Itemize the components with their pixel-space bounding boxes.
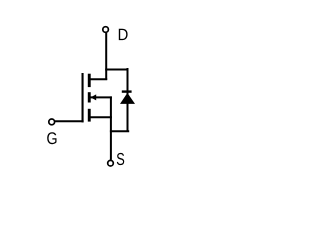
wire diode bottom branch	[110, 130, 129, 132]
arrowhead bulk arrow	[91, 94, 97, 100]
diode D1 cathode bar	[122, 90, 132, 92]
wire middle tap (bulk)	[91, 96, 112, 98]
gate terminal circle G	[49, 119, 55, 125]
wire source vertical	[110, 96, 112, 159]
MOSFET M1 channel segment bottom	[88, 109, 91, 122]
wire drain to diode branch	[105, 69, 128, 71]
wire gate lead	[55, 120, 84, 122]
MOSFET M1 gate bar	[82, 73, 84, 122]
drain terminal circle D	[103, 27, 109, 33]
MOSFET M1 channel segment top	[88, 74, 91, 87]
wire drain lead	[105, 33, 107, 80]
wire top channel tap	[89, 78, 107, 80]
label D	[119, 29, 128, 40]
label S	[117, 153, 124, 165]
MOSFET M1 channel segment middle	[88, 92, 91, 102]
label G	[47, 132, 56, 144]
diode D1 anode triangle	[120, 93, 135, 104]
wire bottom channel tap	[89, 116, 112, 118]
diode D1 vertical wire	[127, 68, 129, 131]
source terminal circle S	[108, 160, 114, 166]
